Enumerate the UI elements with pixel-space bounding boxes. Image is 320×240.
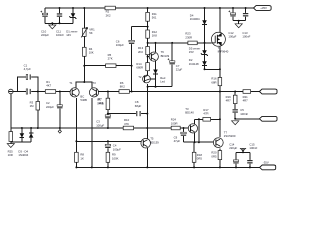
transistor T1 <box>70 88 79 97</box>
wire T8 chain continues <box>146 87 148 139</box>
wire bias chain vertical <box>147 8 149 76</box>
junction C7 top <box>171 42 173 44</box>
junction T8 bottom <box>147 86 149 88</box>
transistor T2 vas <box>143 75 151 83</box>
junction T5 top <box>146 127 148 129</box>
wire diode chain <box>204 8 206 69</box>
svg-text:R2510R: R2510R <box>8 149 14 157</box>
resistor R6 <box>119 90 129 94</box>
wire driver emitter bus <box>184 141 216 143</box>
wire VR1-R4 tail chain <box>83 8 85 82</box>
junction feedback T1 <box>75 140 77 142</box>
junction C1 R3 <box>37 91 39 93</box>
wire T5 collector drop <box>146 148 148 168</box>
wire T6 collector stub <box>155 43 157 52</box>
capacitor C2 <box>57 105 62 109</box>
wire supply filter bottom <box>45 22 73 24</box>
junction rail C14 <box>235 166 237 168</box>
wire R17 bias vertical <box>198 119 200 142</box>
resistor R9 <box>106 152 110 162</box>
wire C10 branch <box>44 8 46 23</box>
terminal speaker return <box>259 116 277 121</box>
resistor R11 <box>146 12 150 21</box>
resistor R2 <box>105 6 115 10</box>
wire C2 branch <box>59 92 61 129</box>
junction C13 top <box>245 7 247 9</box>
junction C2 bottom <box>59 127 61 129</box>
svg-text:R81K: R81K <box>80 153 84 161</box>
junction R22 output <box>219 118 221 120</box>
wire top supply rail +35V <box>45 7 254 9</box>
resistor R20 <box>218 151 222 160</box>
junction decoupling gnd <box>238 20 240 22</box>
junction tail R5 <box>83 65 85 67</box>
transistor T5 <box>141 138 151 148</box>
zener diode D1 <box>70 13 77 19</box>
capacitor C9 <box>181 132 186 136</box>
transistor T3 driver <box>188 124 197 133</box>
resistor R8 <box>75 152 79 162</box>
junction zobel top <box>234 91 236 93</box>
resistor R12 <box>146 30 150 38</box>
junction T3 emitter <box>194 141 196 143</box>
wire zobel ground link <box>235 118 259 120</box>
wire C12 branch <box>232 8 234 21</box>
wire decoupling bottom <box>233 20 246 22</box>
resistor R14 <box>146 63 150 71</box>
transistor T6 <box>149 52 158 61</box>
junction T6 base <box>147 56 149 58</box>
wire T3 emitter drop <box>194 133 196 142</box>
junction R3 bottom <box>37 127 39 129</box>
svg-text:R11561: R11561 <box>152 12 157 20</box>
wire output vertical lower <box>219 148 221 167</box>
svg-text:T3: T3 <box>92 81 96 85</box>
capacitor C12 <box>228 10 235 16</box>
wire ground stub filter <box>51 23 53 25</box>
wire C15 branch <box>249 152 251 167</box>
capacitor C14 <box>233 160 238 164</box>
diode D4b <box>29 133 34 137</box>
junction rail R9 <box>107 166 109 168</box>
wire R5 link <box>84 65 131 67</box>
wire input signal <box>13 91 70 93</box>
terminal OUT <box>259 89 277 94</box>
wire C9 branch <box>183 128 185 142</box>
junction C8 left <box>107 113 109 115</box>
resistor R17 out <box>243 90 251 94</box>
wire R24 to base <box>184 127 191 129</box>
junction filter gnd <box>51 22 53 24</box>
capacitor C8 <box>136 111 141 116</box>
wire VAS input link <box>108 113 147 115</box>
svg-text:R121K8: R121K8 <box>152 30 158 38</box>
diamond node marker <box>58 130 61 133</box>
junction rail R20 <box>219 166 221 168</box>
svg-text:R180R5: R180R5 <box>197 153 203 161</box>
transistor T7 <box>213 138 223 148</box>
wire ground stub clamp <box>10 142 12 143</box>
ground left clamp <box>7 144 14 148</box>
wire R22 link <box>195 118 220 120</box>
capacitor C13 <box>243 13 248 17</box>
capacitor C7 <box>168 58 175 64</box>
junction T4 drain <box>219 7 221 9</box>
wire C13 branch <box>245 8 247 21</box>
resistor R1 <box>45 90 55 94</box>
junction zobel gnd <box>234 118 236 120</box>
svg-text:R200R5: R200R5 <box>211 151 217 159</box>
junction C6 rail <box>131 91 133 93</box>
junction VR1 top <box>83 7 85 9</box>
junction C14C15 gnd <box>242 151 244 153</box>
wire input ground drop <box>10 93 12 128</box>
capacitor C1 lower <box>26 89 31 94</box>
junction rail R18 <box>193 166 195 168</box>
junction rail T3diff <box>91 166 93 168</box>
junction C11 bottom <box>59 22 61 24</box>
svg-text:R214R7: R214R7 <box>243 95 249 103</box>
svg-text:D3 - D41N4004: D3 - D41N4004 <box>18 149 28 157</box>
junction C11 top <box>59 7 61 9</box>
junction D1 top <box>72 7 74 9</box>
junction rail T5 <box>146 166 148 168</box>
wire VAS emitter bus <box>147 84 149 87</box>
wire front rail mid <box>96 91 259 93</box>
wire C7 branch <box>171 43 173 87</box>
svg-text:R194R7: R194R7 <box>226 95 232 103</box>
trimmer VR1 <box>81 27 87 37</box>
wire diamond stub <box>59 128 61 130</box>
capacitor C11 <box>57 13 62 17</box>
svg-text:R1668R: R1668R <box>211 77 217 85</box>
wire gnd stub decoupling <box>238 21 240 24</box>
capacitor C15 <box>247 160 252 164</box>
svg-text:R1747R: R1747R <box>203 108 209 116</box>
terminal -35V <box>260 165 276 170</box>
junction R1 C2 <box>59 91 61 93</box>
wire mid ground rail <box>11 127 190 129</box>
svg-text:-35V: -35V <box>263 160 269 164</box>
wire output vertical upper <box>219 8 221 137</box>
resistor R7 <box>106 98 110 109</box>
capacitor C1 upper <box>26 74 31 79</box>
junction R17b bottom <box>198 141 200 143</box>
wire R3 branch <box>37 92 39 129</box>
wire D1 branch <box>72 8 74 23</box>
wire T3 collector stub <box>194 119 196 124</box>
junction T6 collector <box>155 42 157 44</box>
junction clamp D3 top <box>21 127 23 129</box>
wire led bottom bus <box>148 86 173 88</box>
wire R11 bottom link <box>132 26 148 28</box>
capacitor C3 <box>105 115 110 119</box>
junction D2 bottom <box>204 68 206 70</box>
resistor R22 <box>203 118 211 122</box>
wire bias horizontal <box>148 42 212 44</box>
wire T6 base stub <box>148 56 152 58</box>
junction feedback C4 <box>107 140 109 142</box>
resistor R25 gnd net <box>9 132 13 142</box>
svg-text:R1047K: R1047K <box>124 118 130 126</box>
resistor R24 <box>171 126 180 130</box>
junction rail C15 <box>249 166 251 168</box>
junction R17b top <box>198 118 200 120</box>
ground supply filter <box>49 25 56 29</box>
transistor T3 diff <box>89 88 98 97</box>
wire bottom supply rail -35V <box>76 166 259 168</box>
junction R12 R13 <box>147 42 149 44</box>
resistor R3 <box>36 102 40 111</box>
wire T1 collector drop <box>75 98 77 142</box>
svg-text:R132K0: R132K0 <box>138 46 144 54</box>
junction R11 top <box>147 7 149 9</box>
input terminal X1 <box>9 89 14 94</box>
resistor R19 zobel <box>233 95 237 103</box>
wire T2 vas emitter side <box>149 79 155 87</box>
wire clamp bottom <box>11 141 31 143</box>
wire emitter join T1-T3 <box>76 82 92 88</box>
wire D4 drop <box>30 128 32 142</box>
diode D3 <box>20 133 25 137</box>
junction clamp D4 top <box>30 127 32 129</box>
junction R5 C6 <box>131 65 133 67</box>
capacitor C5 <box>233 109 238 113</box>
capacitor C6 <box>129 40 134 44</box>
resistor R13 <box>146 47 150 55</box>
wire C11 branch <box>59 8 61 23</box>
junction gate link <box>219 68 221 70</box>
ground decoupling top <box>235 24 242 28</box>
wire T6 emitter to LED <box>155 61 157 87</box>
junction R11 R12 <box>147 26 149 28</box>
junction LED bottom <box>155 86 157 88</box>
ground zobel <box>232 121 239 125</box>
junction rail R8 <box>75 166 77 168</box>
junction R23 dchain <box>204 42 206 44</box>
junction VAS input <box>146 113 148 115</box>
capacitor C10 <box>40 11 47 17</box>
wire R7-C3 chain <box>107 92 109 129</box>
wire T3diff collector drop <box>91 98 93 168</box>
junction C12 top <box>232 7 234 9</box>
diode D4 <box>202 20 207 24</box>
mosfet T4 <box>211 32 225 46</box>
resistor R16 <box>218 78 222 86</box>
wire gnd stub C14C15 <box>242 148 244 152</box>
junction C3 bottom <box>107 127 109 129</box>
wire gate link <box>205 68 220 70</box>
svg-text:+35V: +35V <box>260 6 267 10</box>
wire C6-R5 vertical <box>131 27 133 92</box>
ground C14C15 <box>240 148 245 151</box>
wire R25 drop <box>10 128 12 142</box>
wire C14-C15 top <box>236 151 250 153</box>
wire C4-R9 chain <box>107 141 109 167</box>
wire C14 branch <box>235 152 237 167</box>
wire feedback bus <box>76 140 141 142</box>
resistor R5 <box>106 64 116 68</box>
junction R16 bottom <box>219 91 221 93</box>
resistor R4 <box>83 47 87 56</box>
svg-text:T1: T1 <box>69 81 73 85</box>
zener diode D5 <box>201 50 208 56</box>
svg-text:T2: T2 <box>138 75 142 79</box>
wire R8 branch <box>75 141 77 167</box>
diode D2 <box>202 61 207 65</box>
junction diode chain top <box>204 7 206 9</box>
wire D3 drop <box>21 128 23 142</box>
terminal +35V <box>254 6 272 11</box>
wire R18 drop <box>193 142 195 167</box>
wire C1 upper branch <box>18 77 38 92</box>
wire zobel chain <box>234 92 236 119</box>
capacitor C4 <box>105 144 110 148</box>
resistor R18 <box>192 152 196 162</box>
junction R24 C9 <box>183 127 185 129</box>
junction emitters <box>83 81 85 83</box>
resistor R10 <box>123 126 133 130</box>
junction R7 top <box>107 91 109 93</box>
LED D6 red <box>153 70 158 74</box>
resistor R23 <box>188 41 197 45</box>
